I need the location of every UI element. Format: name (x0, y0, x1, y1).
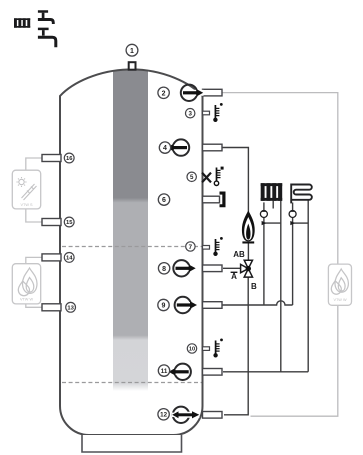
circle 9 (158, 299, 169, 310)
burner flame (242, 211, 255, 244)
pipe valve B down to port 12 (224, 277, 248, 415)
tap icon upper (38, 12, 53, 25)
port 8 stub (203, 265, 223, 272)
circle 15 (64, 217, 74, 227)
return header to port 11 (223, 371, 308, 373)
floor circuit bypass line (293, 222, 309, 224)
svg-text:VTW W: VTW W (20, 298, 33, 302)
port 3 small stub (203, 111, 210, 115)
svg-text:10: 10 (189, 347, 195, 353)
svg-text:1: 1 (130, 48, 134, 55)
circle 2 (158, 87, 169, 98)
check valve radiator circuit (262, 221, 267, 225)
port 10 small stub (203, 347, 210, 351)
pump radiator circuit (260, 210, 267, 217)
svg-text:13: 13 (67, 306, 74, 312)
thermal stratification stripe (113, 69, 148, 392)
boiler module icon VTW W left (12, 264, 40, 304)
svg-text:VTW S: VTW S (20, 203, 32, 207)
check valve floor circuit (290, 221, 295, 225)
port 6 stub (203, 196, 220, 203)
circle 1 (126, 44, 138, 56)
svg-text:11: 11 (161, 368, 168, 375)
svg-text:B: B (251, 282, 257, 291)
circle 12 (158, 409, 169, 420)
svg-text:3: 3 (188, 111, 192, 118)
thermometer port 10 (213, 339, 223, 358)
floor circuit return pipe (307, 201, 309, 372)
flow arrow port 8 (173, 260, 196, 276)
circle 11 (158, 365, 169, 376)
svg-text:6: 6 (162, 197, 166, 204)
gray option line loop from port 2 to port 12 (222, 93, 338, 417)
left port 14 stub (42, 254, 61, 261)
dashed level line lower (62, 382, 202, 384)
gray line port 15 to solar module (26, 209, 42, 223)
radiator circuit flow pipe (263, 202, 265, 305)
radiator circuit return pipe (280, 201, 282, 372)
svg-text:AB: AB (233, 250, 245, 259)
tap icon lower (38, 29, 56, 47)
solar module icon VTW S (12, 170, 40, 209)
thermometer port 7 (213, 237, 223, 256)
tank body fill (60, 69, 203, 435)
svg-text:4: 4 (163, 145, 167, 152)
pipe from port 4 down to burner (222, 148, 248, 213)
pump floor circuit (289, 210, 296, 217)
svg-text:8: 8 (162, 266, 166, 273)
port 12 stub (203, 412, 223, 419)
floor circuit flow pipe (292, 203, 294, 306)
drain valve X port 5 (202, 173, 211, 183)
circle 14 (64, 253, 74, 263)
label A (231, 271, 238, 273)
port 1 nozzle (129, 62, 136, 69)
radiator icon top-left (14, 18, 30, 27)
svg-text:15: 15 (66, 220, 73, 226)
circle 16 (64, 153, 74, 163)
boiler module icon VTW W right (328, 264, 351, 305)
air vent port 5 (214, 167, 223, 186)
gray line port 13 to boiler module (26, 304, 42, 308)
circle 8 (158, 263, 169, 274)
circle 3 (186, 109, 195, 118)
left port 15 stub (42, 219, 61, 226)
underfloor coil icon (291, 185, 312, 204)
port 2 stub (203, 89, 223, 96)
circle 10 (187, 344, 196, 353)
tank plinth (82, 435, 182, 452)
flow arrow port 9 (175, 297, 198, 313)
radiator heating circuit icon (261, 183, 283, 201)
left port 16 stub (42, 155, 61, 162)
circle 6 (158, 194, 169, 205)
svg-text:A: A (231, 272, 237, 281)
pipe port 8 to valve A (223, 267, 241, 269)
immersion heater bracket (220, 192, 226, 208)
svg-text:5: 5 (190, 174, 194, 181)
port 7 small stub (203, 246, 210, 250)
svg-text:2: 2 (162, 90, 166, 97)
gray line port 16 to solar module (26, 158, 42, 171)
svg-text:7: 7 (189, 244, 193, 251)
svg-text:VTW W: VTW W (333, 298, 346, 302)
three-way valve (241, 260, 253, 277)
flow arrow port 12 (bidirectional) (172, 407, 200, 423)
radiator middle leg (272, 201, 274, 209)
svg-text:12: 12 (160, 412, 167, 419)
circle 7 (186, 242, 195, 251)
svg-text:16: 16 (66, 156, 73, 162)
circle 13 (66, 302, 76, 312)
circle 4 (159, 142, 170, 153)
thermometer port 3 (213, 103, 223, 122)
tank outline (60, 69, 203, 435)
flow arrow port 4 (inward) (167, 139, 190, 155)
flow arrow port 11 (inward) (168, 364, 191, 380)
svg-text:14: 14 (66, 256, 73, 262)
port 9 stub (203, 302, 223, 309)
gray line port 14 to boiler module (26, 257, 42, 264)
radiator circuit bypass line (264, 222, 281, 224)
dashed level line upper (62, 246, 202, 248)
circle 5 (187, 172, 196, 181)
port 11 stub (203, 369, 223, 376)
pipe burner to valve AB (247, 243, 249, 260)
flow header from port 9 with bridge (223, 301, 293, 305)
flow arrow port 2 (181, 85, 204, 101)
left port 13 stub (42, 304, 61, 311)
port 4 stub (203, 144, 223, 151)
svg-text:9: 9 (162, 303, 166, 310)
